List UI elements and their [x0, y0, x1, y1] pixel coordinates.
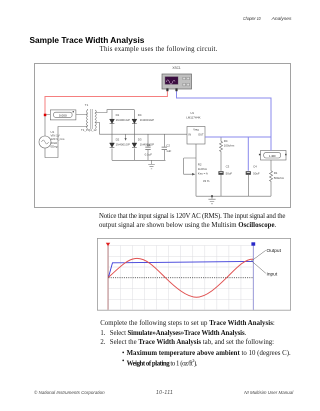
svg-text:Output: Output — [267, 248, 282, 254]
svg-text:50uF: 50uF — [253, 171, 260, 175]
svg-text:D2: D2 — [116, 137, 120, 141]
svg-text:0.1uF: 0.1uF — [145, 152, 153, 156]
svg-text:100ohm: 100ohm — [224, 143, 235, 147]
svg-text:C4: C4 — [253, 164, 257, 168]
svg-text:D4: D4 — [138, 113, 142, 117]
svg-text:T1_PQ4_12: T1_PQ4_12 — [81, 128, 97, 132]
svg-text:U1: U1 — [190, 110, 194, 114]
svg-text:50uF: 50uF — [226, 171, 233, 175]
svg-text:500ohm: 500ohm — [274, 176, 285, 180]
svg-text:OUT: OUT — [198, 132, 204, 136]
svg-text:1N4001GP: 1N4001GP — [140, 118, 154, 122]
svg-text:D3: D3 — [138, 137, 142, 141]
svg-text:1kOhm: 1kOhm — [198, 166, 208, 170]
svg-text:LM117H4K: LM117H4K — [186, 115, 200, 119]
svg-text:C1: C1 — [147, 142, 151, 146]
svg-text:0Deg: 0Deg — [51, 144, 58, 148]
svg-text:1N4001GP: 1N4001GP — [116, 118, 130, 122]
svg-text:Vreg: Vreg — [193, 127, 199, 131]
svg-text:D1: D1 — [116, 113, 120, 117]
svg-text:1N4001GP: 1N4001GP — [116, 142, 130, 146]
svg-text:XSC1: XSC1 — [172, 65, 181, 69]
svg-text:33 %: 33 % — [203, 178, 210, 182]
svg-text:R2: R2 — [198, 162, 202, 166]
svg-text:0.000: 0.000 — [59, 113, 67, 117]
svg-text:1.400: 1.400 — [269, 153, 276, 157]
svg-text:T1: T1 — [85, 103, 89, 107]
svg-text:C2: C2 — [166, 143, 170, 147]
svg-text:Key = A: Key = A — [198, 171, 208, 175]
svg-text:1uF: 1uF — [166, 149, 171, 153]
svg-text:R1: R1 — [274, 171, 278, 175]
svg-text:R4: R4 — [224, 139, 228, 143]
svg-text:IN: IN — [188, 132, 191, 136]
svg-text:C3: C3 — [226, 164, 230, 168]
svg-text:Input: Input — [267, 271, 278, 277]
